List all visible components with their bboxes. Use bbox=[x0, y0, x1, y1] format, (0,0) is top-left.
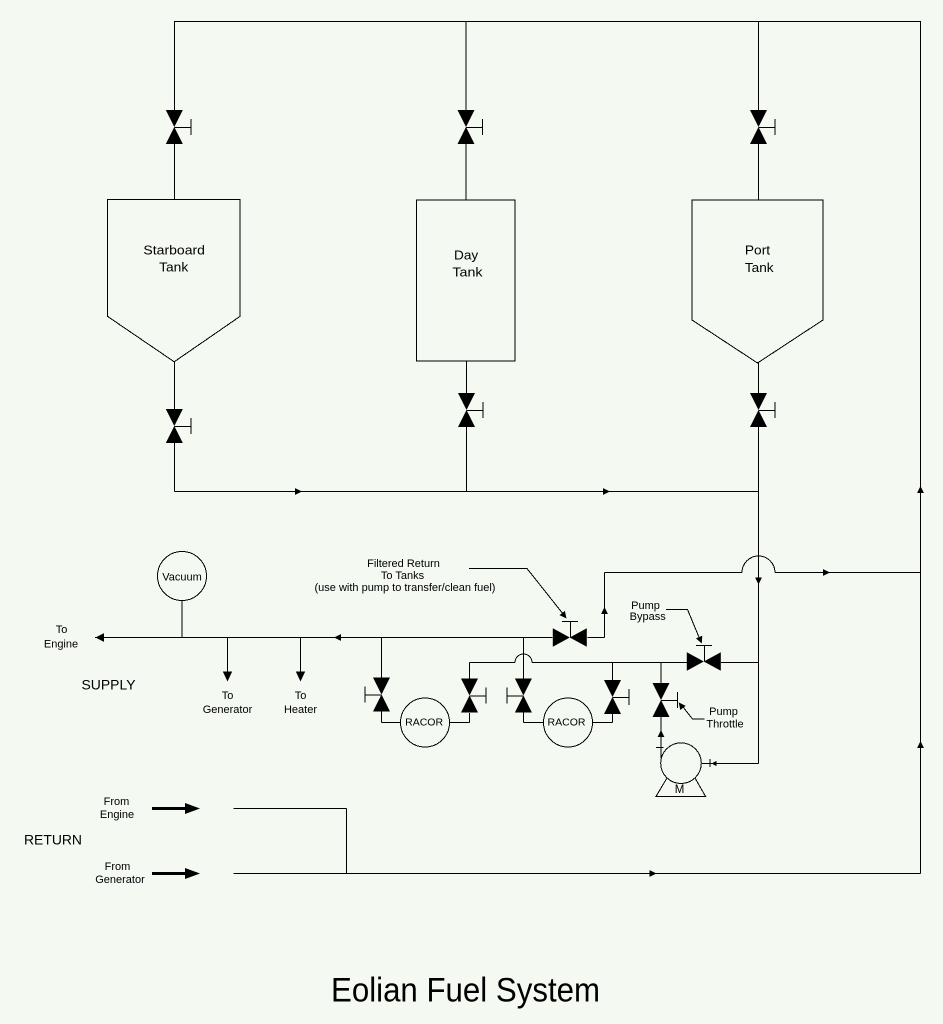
wire: bottom manifold bbox=[174, 491, 758, 493]
wire: top manifold bbox=[174, 21, 921, 23]
svg-text:From: From bbox=[105, 861, 131, 873]
wire: filtered return line to right vertical with hop bbox=[605, 572, 921, 574]
valve: filtered return valve V-FR bbox=[553, 622, 587, 647]
arrow: right vertical flow up (upper) bbox=[917, 486, 924, 493]
svg-text:Vacuum: Vacuum bbox=[162, 572, 202, 584]
wire: right main vertical bbox=[920, 22, 922, 874]
svg-text:Tank: Tank bbox=[745, 260, 774, 275]
valve: pump throttle valve bbox=[653, 683, 678, 717]
svg-text:SUPPLY: SUPPLY bbox=[82, 678, 136, 693]
wire: port tank riser bbox=[758, 22, 760, 201]
wire: main supply line bbox=[95, 637, 605, 639]
svg-text:Filtered Return: Filtered Return bbox=[367, 558, 440, 570]
svg-text:RACOR: RACOR bbox=[548, 717, 586, 729]
svg-text:Starboard: Starboard bbox=[143, 242, 205, 257]
svg-text:To Tanks: To Tanks bbox=[381, 570, 425, 582]
arrow: from engine thick arrow bbox=[152, 803, 200, 814]
wire: filtered return riser from supply line bbox=[604, 573, 606, 638]
svg-text:Throttle: Throttle bbox=[706, 719, 743, 731]
valve: day tank top supply valve bbox=[458, 110, 483, 144]
filter: RACOR 1 bbox=[401, 698, 450, 747]
arrow: return flow right bbox=[650, 870, 657, 877]
leader: pump bypass note to valve bbox=[666, 610, 701, 643]
svg-text:M: M bbox=[675, 784, 685, 796]
svg-text:RACOR: RACOR bbox=[405, 717, 443, 729]
arrow: port riser flow down below hop bbox=[755, 578, 762, 585]
label: Filtered Return To Tanks note bbox=[315, 558, 496, 594]
svg-text:Heater: Heater bbox=[284, 704, 317, 716]
tick: pump suction tick bbox=[709, 759, 711, 767]
valve: racor1 inlet valve bbox=[365, 678, 390, 712]
wire: pump throttle drop bbox=[656, 663, 664, 759]
wire: starboard tank riser bbox=[173, 22, 175, 200]
valve: starboard top supply valve bbox=[166, 110, 191, 144]
svg-text:To: To bbox=[222, 690, 234, 702]
svg-text:Port: Port bbox=[745, 243, 771, 258]
pump: motor circle M bbox=[661, 743, 702, 784]
wire: to generator branch bbox=[227, 638, 229, 673]
tank: Port Tank bbox=[692, 200, 823, 363]
valve: day outlet valve bbox=[458, 393, 483, 427]
arrow: filtered return riser flow up bbox=[601, 607, 608, 614]
wire: day tank riser bbox=[465, 22, 467, 200]
wire: port tank outlet / pump suction riser bbox=[702, 363, 759, 764]
arrow: to heater bbox=[296, 672, 305, 682]
valve: pump bypass valve bbox=[687, 646, 721, 671]
wire: engine return line bbox=[234, 809, 347, 874]
svg-text:From: From bbox=[104, 796, 130, 808]
arrow: pump suction flow left bbox=[712, 761, 717, 766]
filter: RACOR 2 bbox=[544, 698, 593, 747]
svg-text:Tank: Tank bbox=[452, 265, 483, 280]
svg-text:Bypass: Bypass bbox=[630, 611, 667, 623]
arrow: right vertical flow up (lower) bbox=[917, 741, 924, 748]
arrow: supply flow left (mid line) bbox=[334, 634, 341, 641]
svg-text:Generator: Generator bbox=[203, 704, 253, 716]
svg-text:Day: Day bbox=[454, 248, 479, 263]
valve: racor1 outlet valve bbox=[461, 679, 486, 713]
wire: racor1 inlet drop bbox=[382, 638, 401, 723]
svg-text:Tank: Tank bbox=[159, 260, 189, 275]
svg-text:Eolian Fuel System: Eolian Fuel System bbox=[331, 972, 600, 1010]
pump: motor base trapezoid bbox=[656, 778, 705, 796]
svg-text:Generator: Generator bbox=[95, 874, 145, 886]
gauge: vacuum gauge bbox=[158, 552, 207, 601]
svg-text:(use with pump to transfer/cle: (use with pump to transfer/clean fuel) bbox=[315, 582, 496, 594]
arrow: pump discharge flow up bbox=[658, 730, 665, 737]
wire: racor2 outlet bbox=[593, 663, 613, 723]
leader: filtered return note to valve bbox=[469, 569, 566, 618]
svg-text:To: To bbox=[56, 624, 68, 636]
arrow: bottom manifold flow right 1 bbox=[295, 488, 302, 495]
wire: hop arc over port riser bbox=[742, 556, 775, 572]
wire: pump suction header with hop bbox=[470, 662, 759, 664]
leader: pump throttle note to valve bbox=[681, 704, 705, 719]
tank: Starboard Tank bbox=[108, 199, 240, 361]
svg-text:Pump: Pump bbox=[709, 706, 738, 718]
svg-text:Engine: Engine bbox=[100, 809, 134, 821]
svg-text:RETURN: RETURN bbox=[24, 832, 82, 848]
arrow: filtered return flow right bbox=[823, 569, 830, 576]
wire: to heater branch bbox=[300, 638, 302, 673]
valve: starboard outlet valve bbox=[166, 409, 191, 443]
tank: Day Tank bbox=[417, 200, 516, 361]
wire: starboard tank outlet bbox=[173, 362, 175, 492]
valve: racor2 inlet valve bbox=[507, 679, 532, 713]
wire: day tank outlet bbox=[466, 361, 468, 492]
valve: racor2 outlet valve bbox=[604, 680, 629, 714]
valve: port outlet valve bbox=[750, 393, 775, 427]
svg-text:To: To bbox=[295, 690, 307, 702]
wire: racor1 outlet bbox=[450, 663, 470, 723]
arrow: from generator thick arrow bbox=[152, 868, 200, 879]
arrow: bottom manifold flow right 2 bbox=[603, 488, 610, 495]
wire: hop arc over racor2 drop bbox=[515, 654, 532, 663]
gauge: vacuum gauge stem bbox=[181, 601, 183, 638]
valve: port top supply valve bbox=[750, 110, 775, 144]
arrow: supply to engine (line end) bbox=[96, 633, 105, 642]
svg-text:Engine: Engine bbox=[44, 639, 78, 651]
wire: racor2 inlet drop from supply bbox=[523, 638, 543, 723]
arrow: to generator bbox=[223, 672, 232, 682]
wire: generator return line bbox=[234, 873, 921, 875]
